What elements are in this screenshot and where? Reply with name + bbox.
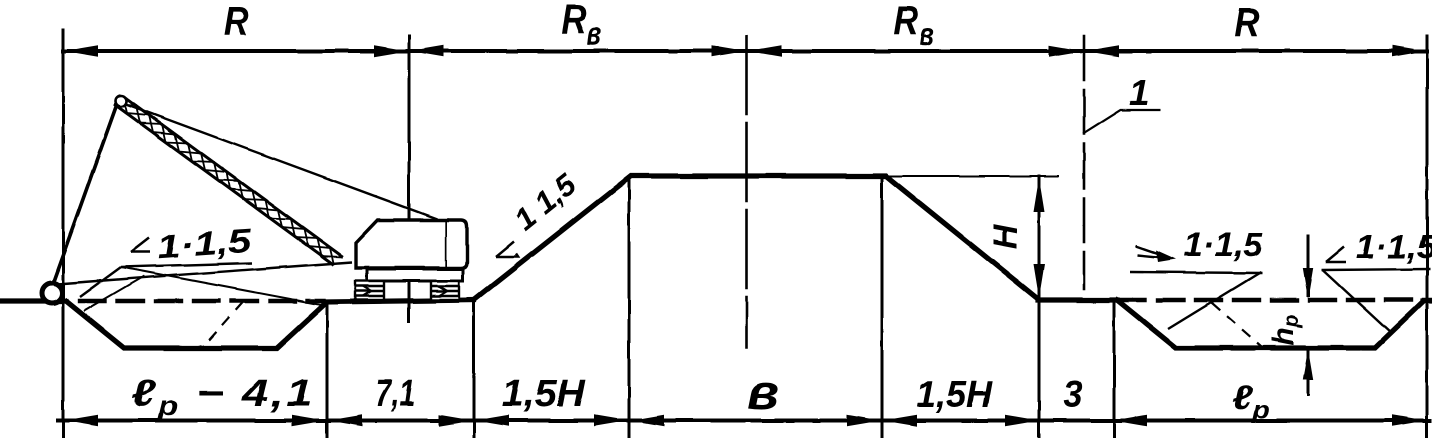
right ditch right underline: [1322, 269, 1430, 270]
extension line x=474: [473, 300, 476, 438]
boom tip pulley: [116, 96, 127, 107]
extension line x=629: [628, 178, 631, 438]
right ditch right thin diagonal: [1323, 270, 1392, 334]
left ditch dashed theoretical slope: [203, 302, 243, 347]
bottom label lp (right): [1232, 378, 1270, 423]
svg-text:R: R: [893, 0, 919, 44]
h_p label rotated: [1267, 314, 1303, 345]
bottom label 1,5H (left): [501, 373, 585, 415]
right crawler pad: [431, 281, 459, 300]
extension line x=882: [881, 178, 884, 438]
left ditch slope label 1·1,5: [156, 222, 254, 266]
extension line x=327: [326, 303, 329, 438]
svg-text:1·1,5: 1·1,5: [156, 222, 254, 266]
dragline bucket: [42, 283, 62, 303]
arrows top dimension line: [64, 45, 1426, 57]
cab right box: [447, 220, 467, 268]
boom pendant cable: [123, 103, 437, 219]
dashed ground across left ditch: [80, 299, 324, 303]
svg-text:в: в: [920, 15, 935, 53]
top label Rв (second): [561, 0, 587, 43]
right ditch profile: [1117, 300, 1423, 348]
svg-text:в: в: [747, 365, 779, 420]
ground between ditch and embankment: [326, 300, 474, 302]
bottom dimension line: [58, 419, 1430, 423]
extension line left x=63: [62, 30, 65, 438]
svg-text:в: в: [587, 15, 602, 53]
left ditch annotation underline: [121, 263, 252, 267]
left crawler pad: [355, 281, 384, 300]
svg-text:1,5H: 1,5H: [501, 373, 585, 415]
extension line right x=1427: [1426, 36, 1429, 438]
left ditch slope annotation angle symbol: [131, 238, 150, 252]
svg-text:1·1,5: 1·1,5: [1355, 229, 1432, 266]
right ditch right annotation angle symbol: [1326, 247, 1346, 262]
right ditch left thin diagonal: [1168, 272, 1261, 329]
bottom label 7,1: [375, 373, 415, 415]
right ditch left label 1·1,5: [1184, 227, 1264, 264]
hoist rope boom tip to bucket: [53, 104, 117, 283]
boom lattice: [114, 104, 343, 257]
svg-text:R: R: [561, 0, 587, 43]
H dimension arrows: [1034, 178, 1045, 298]
svg-text:1,5H: 1,5H: [916, 372, 993, 415]
top label R (first): [223, 0, 249, 45]
left ditch long thin diagonal: [121, 267, 327, 306]
embankment slope label angle symbol: [496, 242, 518, 257]
right ditch left annotation arrow glyph: [1136, 246, 1176, 262]
extension line x=1039 with H dimension: [1038, 176, 1041, 438]
dash-dot line x=1084 (edge of work zone): [1083, 36, 1086, 289]
svg-text:7,1: 7,1: [375, 373, 415, 415]
right ditch left underline: [1130, 272, 1262, 273]
ground line left: [0, 298, 66, 303]
centerline x=746 dash: [745, 36, 748, 348]
top dimension line: [63, 49, 1427, 53]
machine base platform: [367, 269, 463, 281]
svg-text:3: 3: [1063, 372, 1082, 415]
arrows bottom dimension line: [64, 415, 1426, 427]
embankment top extension (thin): [886, 175, 1058, 177]
right ditch right label 1·1,5: [1355, 229, 1432, 266]
bottom label 1,5H (right): [916, 372, 993, 415]
svg-text:R: R: [223, 0, 249, 45]
svg-text:H: H: [987, 223, 1025, 249]
h_p dimension upper arrow: [1307, 234, 1310, 396]
svg-text:1: 1: [1129, 72, 1149, 113]
ground right of embankment: [1038, 297, 1117, 302]
extension line x=1114: [1113, 301, 1116, 438]
drag cable bucket to machine: [57, 262, 352, 284]
bottom label 3: [1063, 372, 1082, 415]
svg-text:1·1,5: 1·1,5: [1184, 227, 1264, 264]
extension line x=409 through excavator: [408, 36, 411, 322]
left ditch leader into slope: [80, 267, 121, 297]
ground right edge: [1423, 298, 1432, 303]
leader for item 1: [1083, 110, 1160, 134]
top label R (fourth): [1234, 0, 1260, 45]
svg-text:R: R: [1234, 0, 1260, 45]
lattice boom chords: [114, 96, 343, 265]
left ditch profile: [66, 301, 326, 348]
top label Rв (third): [893, 0, 919, 44]
left ditch slope crossing thin line: [84, 276, 144, 311]
bottom label lp-4,1: [131, 372, 315, 421]
embankment profile: [474, 176, 1038, 300]
right ditch dashed theoretical slope: [1212, 303, 1262, 347]
bottom label в: [747, 365, 779, 420]
excavator cab body: [356, 220, 447, 268]
dashed ground across right ditch: [1120, 298, 1430, 302]
